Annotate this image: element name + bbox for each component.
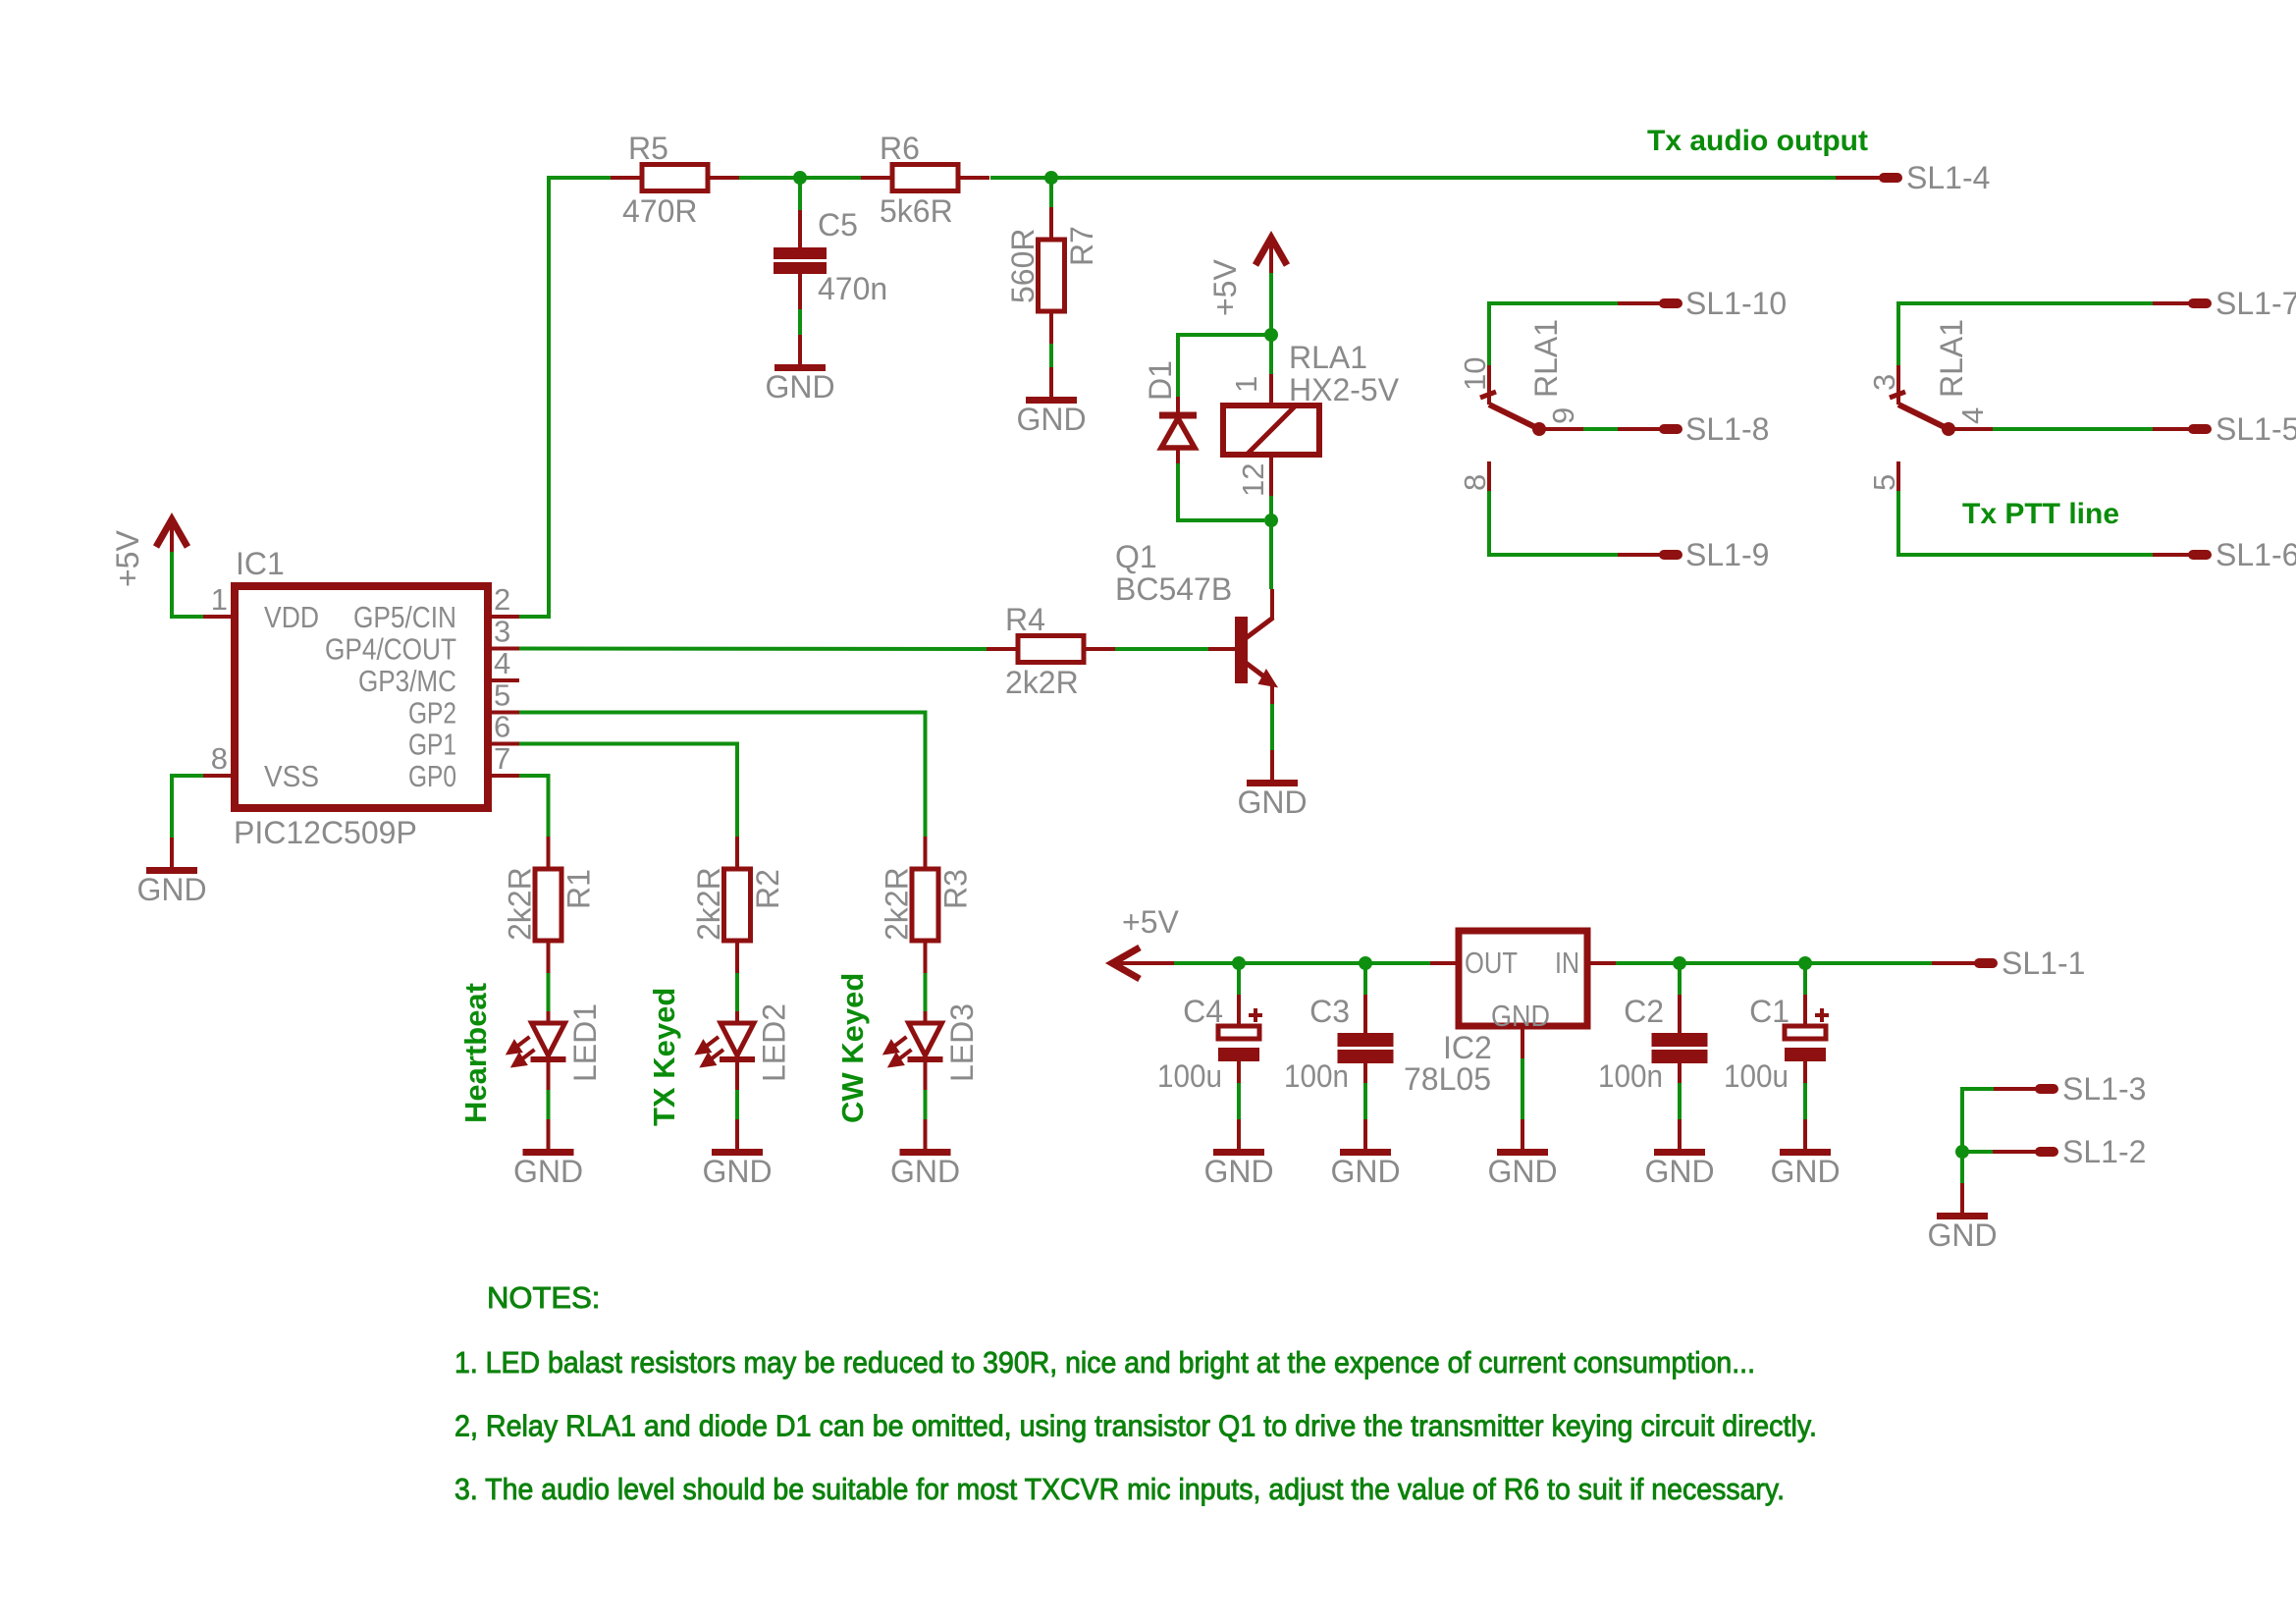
svg-text:SL1-2: SL1-2: [2062, 1134, 2146, 1169]
svg-text:4: 4: [494, 646, 510, 680]
ground below R7: [1016, 367, 1086, 437]
svg-text:1. LED balast resistors may be: 1. LED balast resistors may be reduced t…: [454, 1345, 1755, 1380]
C3 top pin lead: [1363, 995, 1367, 1033]
C1 bottom pin lead: [1803, 1061, 1807, 1083]
svg-text:2k2R: 2k2R: [691, 867, 726, 941]
wire net GP4 from IC1 pin3 to R4: [519, 647, 987, 652]
wire SL1-9 branch: [1489, 491, 1618, 555]
LED2 cathode lead: [735, 1062, 739, 1090]
wire Q1 emitter to GND: [1270, 704, 1274, 750]
pin lead SL1-8: [1618, 427, 1662, 431]
wire C4 top: [1237, 963, 1241, 995]
svg-text:9: 9: [1546, 407, 1580, 424]
svg-text:GND: GND: [890, 1154, 960, 1189]
svg-text:SL1-10: SL1-10: [1685, 286, 1787, 321]
svg-text:5: 5: [494, 678, 510, 713]
wire R4 to Q1 base: [1115, 647, 1208, 651]
connector pin SL1-7 pad: [2188, 298, 2212, 308]
wire C5 top: [798, 178, 802, 210]
svg-text:IC2: IC2: [1443, 1030, 1492, 1065]
pin lead SL1-4: [1836, 176, 1882, 180]
relay contact pin 8 lead: [1487, 461, 1491, 491]
svg-text:CW Keyed: CW Keyed: [835, 973, 870, 1123]
svg-text:R5: R5: [628, 131, 668, 166]
svg-text:3. The audio level should be s: 3. The audio level should be suitable fo…: [454, 1472, 1785, 1506]
junction C3: [1359, 956, 1372, 970]
resistor R2: [724, 837, 751, 973]
ground below C5: [765, 335, 834, 405]
capacitor C4 (polarized): [1218, 1008, 1262, 1061]
svg-text:+5V: +5V: [1207, 259, 1243, 316]
pin lead SL1-1: [1932, 961, 1977, 965]
ground below IC2: [1487, 1119, 1557, 1189]
wire R7 to GND: [1049, 344, 1053, 367]
junction D1 anode / Q1 collector: [1264, 514, 1278, 527]
relay contact pivot dot: [1942, 422, 1955, 436]
svg-text:6: 6: [494, 710, 510, 744]
pin lead SL1-5: [2153, 427, 2191, 431]
wire relay pin12 to junction: [1269, 496, 1273, 520]
svg-text:SL1-7: SL1-7: [2216, 286, 2296, 321]
ground below IC1: [136, 838, 206, 907]
svg-text:GND: GND: [1487, 1154, 1557, 1189]
svg-text:GND: GND: [1237, 784, 1307, 820]
svg-text:C5: C5: [818, 207, 858, 243]
wire IC1 pin8 to GND: [172, 776, 203, 839]
IC1 pin 7 lead: [488, 774, 519, 778]
ground below C2: [1644, 1119, 1714, 1189]
svg-text:SL1-4: SL1-4: [1906, 160, 1990, 195]
svg-text:IN: IN: [1555, 946, 1579, 980]
Q1 base pin lead: [1208, 647, 1236, 651]
supply +5V at IC1: [156, 519, 187, 555]
svg-text:R4: R4: [1005, 602, 1045, 637]
svg-text:+5V: +5V: [110, 530, 145, 587]
svg-text:+5V: +5V: [1122, 904, 1179, 940]
LED1 cathode lead: [547, 1062, 551, 1090]
svg-text:7: 7: [494, 741, 510, 776]
wire audio rail to SL1-4: [1051, 176, 1836, 180]
capacitor C1 (polarized): [1785, 1008, 1829, 1061]
svg-text:R2: R2: [750, 869, 785, 909]
wire SL1-10 branch: [1489, 303, 1618, 365]
connector pin SL1-3 pad: [2035, 1084, 2058, 1094]
LED1 anode lead: [547, 1011, 551, 1023]
LED LED3: [886, 1023, 943, 1065]
supply +5V at relay: [1255, 238, 1287, 273]
svg-text:5k6R: 5k6R: [880, 193, 953, 229]
svg-text:OUT: OUT: [1465, 946, 1518, 980]
resistor R4: [987, 636, 1115, 663]
svg-text:RLA1: RLA1: [1528, 319, 1564, 398]
IC2 GND pin lead: [1521, 1026, 1524, 1058]
relay contact blade: [1898, 405, 1949, 429]
svg-text:GND: GND: [1644, 1154, 1714, 1189]
ground below C4: [1203, 1119, 1273, 1189]
C2 bottom pin lead: [1678, 1063, 1682, 1083]
wire net N$1 riser from IC1 pin2: [519, 178, 611, 617]
resistor R3: [912, 837, 938, 973]
svg-text:1: 1: [1229, 376, 1263, 393]
resistor R7: [1039, 207, 1065, 344]
relay contact pin 9 lead: [1539, 427, 1583, 431]
svg-text:GND: GND: [513, 1154, 583, 1189]
wire R2 to LED2: [735, 973, 739, 1011]
LED3 anode lead: [924, 1011, 928, 1023]
svg-text:GP5/CIN: GP5/CIN: [353, 600, 456, 634]
IC1 pin 3 lead: [488, 647, 519, 651]
svg-text:IC1: IC1: [236, 546, 285, 581]
svg-text:8: 8: [211, 741, 228, 776]
ground below SL1-2: [1927, 1183, 1997, 1253]
relay contact pin 5 lead: [1896, 461, 1900, 491]
resistor R1: [535, 837, 561, 973]
wire D1 anode to junction: [1178, 463, 1264, 520]
svg-text:2k2R: 2k2R: [1005, 665, 1079, 700]
svg-text:GND: GND: [1770, 1154, 1840, 1189]
wire C2 to GND: [1678, 1083, 1682, 1119]
C4 top pin lead: [1237, 995, 1241, 1024]
wire C5 to GND: [798, 309, 802, 335]
svg-text:100n: 100n: [1598, 1058, 1663, 1094]
wire net GP0 to R1: [519, 776, 549, 837]
svg-text:470R: 470R: [622, 193, 698, 229]
svg-text:SL1-6: SL1-6: [2216, 537, 2296, 572]
svg-text:8: 8: [1458, 474, 1492, 491]
junction at R7: [1044, 171, 1058, 185]
svg-text:5: 5: [1867, 474, 1901, 491]
wire C3 to GND: [1363, 1083, 1367, 1119]
ground below LED3: [890, 1119, 960, 1189]
connector pin SL1-8 pad: [1659, 424, 1682, 434]
svg-text:SL1-9: SL1-9: [1685, 537, 1769, 572]
LED LED2: [698, 1023, 755, 1065]
junction SL1-2/GND: [1955, 1145, 1969, 1159]
svg-text:LED3: LED3: [944, 1003, 980, 1082]
wire R7 top: [1049, 178, 1053, 207]
pin lead SL1-10: [1618, 301, 1662, 305]
supply +5V arrow (left): [1112, 947, 1174, 979]
svg-text:R6: R6: [880, 131, 920, 166]
ground below Q1: [1237, 750, 1307, 820]
ground below C3: [1330, 1119, 1400, 1189]
ground below LED2: [702, 1119, 772, 1189]
wire SL1-2 branch: [1962, 1150, 1993, 1154]
connector pin SL1-10 pad: [1659, 298, 1682, 308]
svg-text:BC547B: BC547B: [1115, 571, 1232, 607]
wire +5V to relay junction: [1269, 273, 1273, 335]
svg-text:470n: 470n: [818, 271, 887, 306]
wire R3 to LED3: [924, 973, 928, 1011]
svg-text:SL1-5: SL1-5: [2216, 411, 2296, 447]
connector pin SL1-6 pad: [2188, 550, 2212, 560]
transistor Q1 BC547B: [1235, 589, 1276, 704]
svg-text:SL1-8: SL1-8: [1685, 411, 1769, 447]
ground below LED1: [513, 1119, 583, 1189]
wire C1 to GND: [1803, 1083, 1807, 1119]
wire C1 top: [1803, 963, 1807, 995]
svg-text:Q1: Q1: [1115, 539, 1157, 574]
pin lead SL1-3: [1994, 1087, 2038, 1091]
svg-text:TX Keyed: TX Keyed: [647, 988, 681, 1126]
svg-text:Tx PTT line: Tx PTT line: [1962, 498, 2119, 530]
IC IC2 78L05 body: [1459, 931, 1587, 1026]
wire audio rail R5 to R6: [739, 176, 861, 180]
svg-text:100u: 100u: [1724, 1058, 1789, 1094]
wire SL1-8 segment: [1583, 427, 1618, 431]
svg-text:GP1: GP1: [408, 728, 456, 762]
svg-text:C1: C1: [1749, 994, 1789, 1029]
svg-text:GND: GND: [1927, 1217, 1997, 1253]
wire junction to Q1 collector: [1269, 520, 1273, 589]
connector pin SL1-5 pad: [2188, 424, 2212, 434]
relay contact blade: [1489, 405, 1539, 429]
IC1 pin 8 lead: [203, 774, 235, 778]
junction relay pin1 / D1: [1264, 328, 1278, 342]
svg-text:D1: D1: [1143, 360, 1178, 401]
svg-text:R1: R1: [561, 869, 597, 909]
pin lead SL1-2: [1993, 1150, 2038, 1154]
svg-text:GND: GND: [765, 369, 834, 405]
svg-text:C4: C4: [1183, 994, 1223, 1029]
svg-text:2k2R: 2k2R: [880, 867, 915, 941]
relay contact pivot dot: [1532, 422, 1546, 436]
relay contact pin 4 lead: [1949, 427, 1993, 431]
relay contact pin 10 lead: [1487, 365, 1491, 405]
svg-text:RLA1: RLA1: [1289, 340, 1367, 375]
svg-text:GP3/MC: GP3/MC: [358, 664, 456, 698]
IC1 pin 4 lead: [488, 678, 519, 682]
junction C2: [1673, 956, 1686, 970]
wire IC2 GND: [1521, 1058, 1524, 1119]
svg-text:2, Relay RLA1 and diode D1 can: 2, Relay RLA1 and diode D1 can be omitte…: [454, 1409, 1817, 1443]
wire D1 cathode branch: [1178, 335, 1271, 397]
svg-text:4: 4: [1955, 407, 1990, 424]
wire C2 top: [1678, 963, 1682, 995]
IC2 OUT pin lead: [1430, 961, 1459, 965]
capacitor C5: [774, 210, 827, 309]
wire to GND below SL1-2: [1960, 1152, 1964, 1183]
resistor R5: [611, 165, 739, 191]
svg-text:2k2R: 2k2R: [503, 867, 538, 941]
IC1 pin 1 lead: [203, 615, 235, 619]
svg-text:100n: 100n: [1284, 1058, 1349, 1094]
C1 top pin lead: [1803, 995, 1807, 1024]
svg-text:Tx audio output: Tx audio output: [1647, 125, 1868, 157]
wire SL1-3 branch: [1962, 1089, 1994, 1152]
svg-text:GP0: GP0: [408, 759, 456, 793]
svg-text:RLA1: RLA1: [1934, 319, 1969, 398]
svg-text:12: 12: [1236, 463, 1270, 497]
wire LED2 to GND: [735, 1090, 739, 1119]
svg-text:VSS: VSS: [264, 759, 319, 793]
ground below C1: [1770, 1119, 1840, 1189]
svg-text:Heartbeat: Heartbeat: [458, 983, 493, 1123]
wire relay pin1: [1269, 335, 1273, 374]
IC1 pin 5 lead: [488, 711, 519, 715]
relay contact pin 3 lead: [1896, 365, 1900, 405]
resistor R6: [861, 165, 989, 191]
svg-text:GND: GND: [136, 872, 206, 907]
svg-text:VDD: VDD: [264, 600, 319, 634]
connector pin SL1-4 pad: [1879, 173, 1902, 183]
LED3 cathode lead: [924, 1062, 928, 1090]
IC1 pin 6 lead: [488, 742, 519, 746]
IC2 IN pin lead: [1587, 961, 1616, 965]
wire SL1-5 segment: [1993, 427, 2153, 431]
svg-text:HX2-5V: HX2-5V: [1289, 372, 1400, 407]
pin lead SL1-9: [1618, 553, 1662, 557]
svg-text:LED2: LED2: [757, 1003, 792, 1082]
svg-text:GND: GND: [1330, 1154, 1400, 1189]
svg-text:3: 3: [1867, 374, 1901, 391]
wire audio rail R6 to R7: [990, 176, 1051, 180]
connector pin SL1-1 pad: [1974, 958, 1998, 968]
capacitor C3: [1338, 1033, 1394, 1063]
wire +5V rail segment b: [1616, 961, 1932, 965]
C2 top pin lead: [1678, 995, 1682, 1033]
relay RLA1 coil: [1223, 374, 1319, 496]
wire LED3 to GND: [924, 1090, 928, 1119]
C4 bottom pin lead: [1237, 1061, 1241, 1083]
svg-text:GP4/COUT: GP4/COUT: [325, 632, 456, 667]
wire C4 to GND: [1237, 1083, 1241, 1119]
junction C1: [1798, 956, 1812, 970]
connector pin SL1-9 pad: [1659, 550, 1682, 560]
wire SL1-6 branch: [1898, 491, 2153, 555]
svg-text:GND: GND: [702, 1154, 772, 1189]
LED LED1: [509, 1023, 566, 1065]
wire +5V to IC1 pin1: [172, 552, 203, 617]
diode D1: [1159, 397, 1197, 463]
svg-text:PIC12C509P: PIC12C509P: [234, 815, 417, 850]
svg-text:1: 1: [211, 582, 228, 617]
IC IC1 PIC12C509P body: [235, 586, 488, 808]
pin lead SL1-6: [2153, 553, 2191, 557]
svg-text:SL1-3: SL1-3: [2062, 1071, 2146, 1107]
wire LED1 to GND: [547, 1090, 551, 1119]
svg-text:10: 10: [1458, 357, 1492, 391]
wire net GP2 to R3: [519, 713, 926, 838]
wire R1 to LED1: [547, 973, 551, 1011]
capacitor C2: [1652, 1033, 1708, 1063]
IC1 pin 2 lead: [488, 615, 519, 619]
svg-text:GND: GND: [1016, 402, 1086, 437]
svg-text:C3: C3: [1309, 994, 1350, 1029]
pin lead SL1-7: [2153, 301, 2191, 305]
svg-text:78L05: 78L05: [1404, 1061, 1491, 1097]
connector pin SL1-2 pad: [2035, 1147, 2058, 1157]
junction at C5: [793, 171, 807, 185]
svg-text:2: 2: [494, 582, 510, 617]
wire net GP1 to R2: [519, 744, 737, 838]
svg-text:R3: R3: [938, 869, 974, 909]
LED2 anode lead: [735, 1011, 739, 1023]
wire C3 top: [1363, 963, 1367, 995]
svg-text:GND: GND: [1203, 1154, 1273, 1189]
wire SL1-7 branch: [1898, 303, 2153, 365]
svg-text:100u: 100u: [1157, 1058, 1222, 1094]
svg-text:NOTES:: NOTES:: [487, 1280, 600, 1315]
wire +5V rail segment a: [1174, 961, 1430, 965]
junction C4: [1232, 956, 1246, 970]
svg-text:LED1: LED1: [567, 1003, 603, 1082]
svg-text:GP2: GP2: [408, 696, 456, 730]
svg-text:SL1-1: SL1-1: [2002, 946, 2085, 981]
svg-text:560R: 560R: [1005, 229, 1041, 304]
svg-text:R7: R7: [1064, 226, 1099, 266]
svg-text:C2: C2: [1624, 994, 1664, 1029]
C3 bottom pin lead: [1363, 1063, 1367, 1083]
svg-text:3: 3: [494, 615, 510, 649]
